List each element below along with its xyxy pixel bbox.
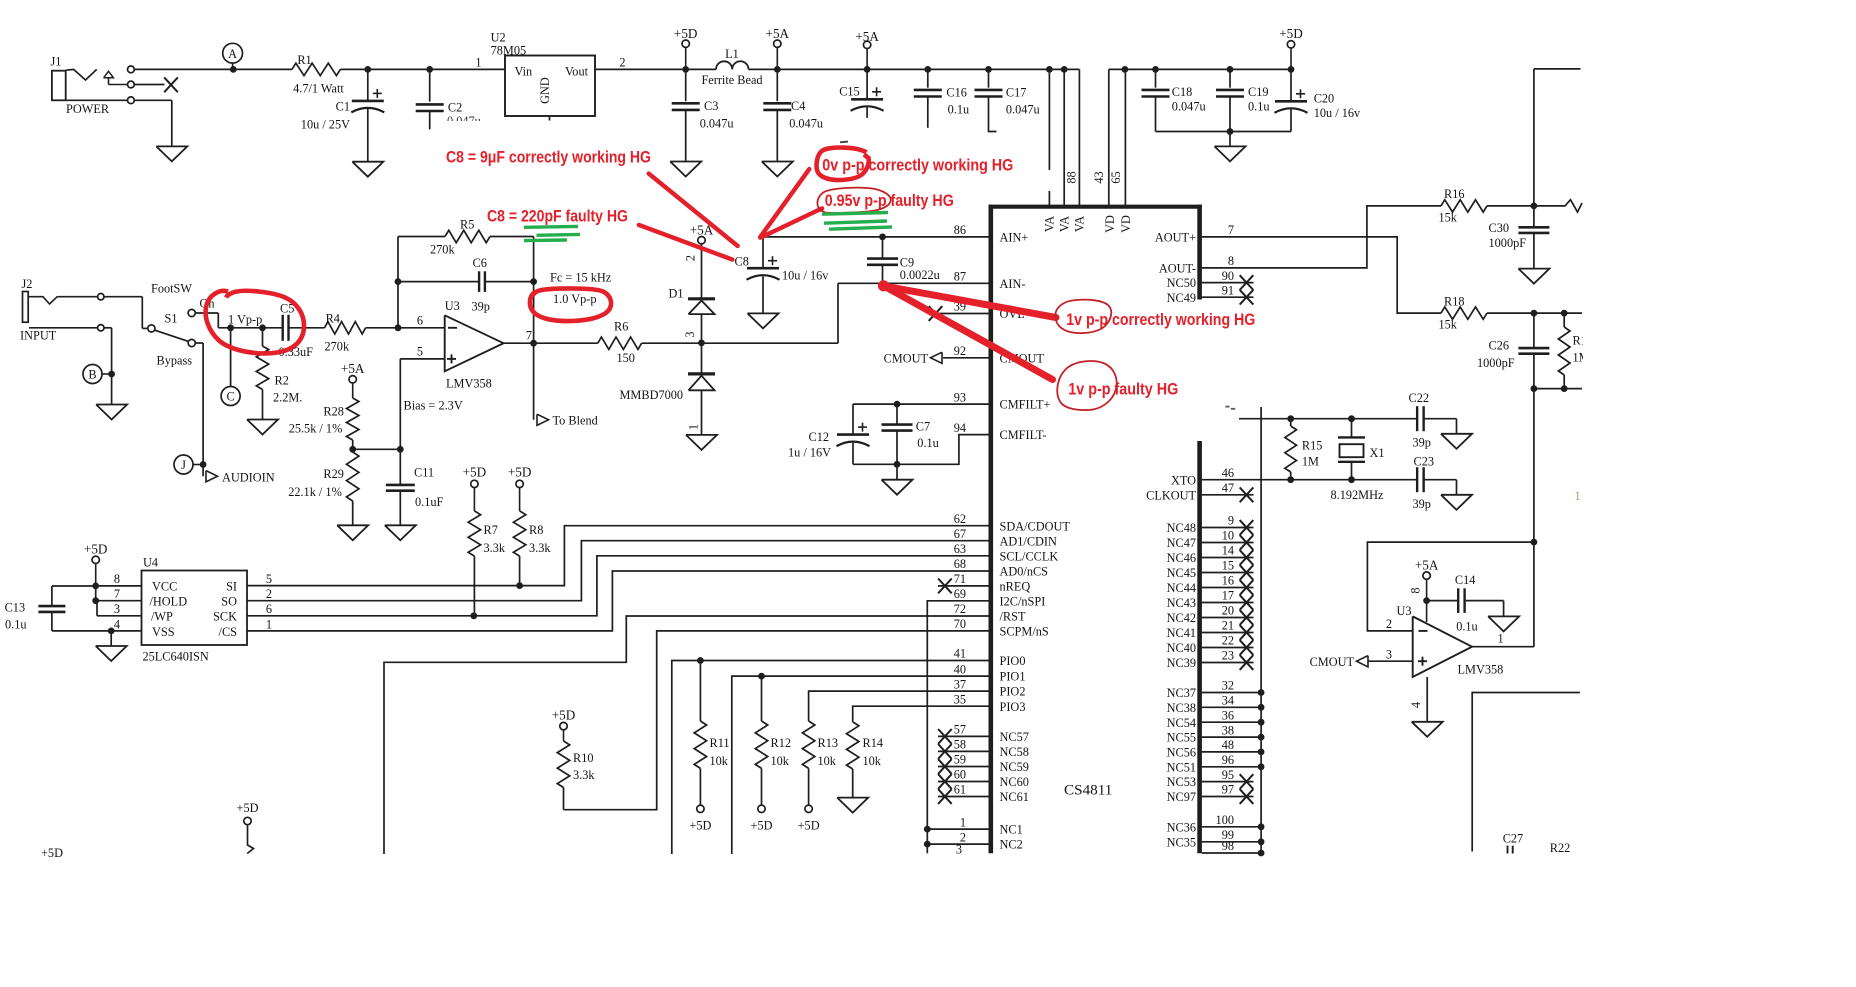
power +5D (R11)	[689, 805, 711, 832]
svg-text:NC60: NC60	[1000, 775, 1029, 789]
svg-text:CMOUT: CMOUT	[1310, 655, 1355, 669]
power +5A (C15 node)	[855, 29, 879, 69]
svg-text:0.047u: 0.047u	[1006, 103, 1040, 117]
svg-text:7: 7	[526, 329, 532, 343]
junction bias/C11	[397, 446, 404, 453]
svg-text:65: 65	[1109, 171, 1123, 183]
svg-text:72: 72	[954, 602, 966, 616]
capacitor C27 (cut)	[1503, 832, 1524, 854]
svg-text:D1: D1	[669, 286, 684, 300]
svg-text:NC35: NC35	[1167, 835, 1196, 849]
junction C2	[426, 66, 433, 73]
junction VCC	[92, 583, 99, 590]
svg-text:57: 57	[954, 723, 966, 737]
wire CMFILT- net	[853, 435, 989, 465]
svg-text:1 Vp-p: 1 Vp-p	[228, 313, 262, 327]
svg-text:71: 71	[954, 572, 966, 586]
svg-text:68: 68	[954, 557, 966, 571]
wire PIO2 net	[809, 691, 989, 721]
capacitor C30 1000pF	[1489, 206, 1550, 269]
svg-text:10k: 10k	[863, 754, 882, 768]
svg-text:NC37: NC37	[1167, 686, 1196, 700]
VA/VD supply wires into chip	[1049, 69, 1125, 205]
svg-text:R13: R13	[818, 736, 839, 750]
svg-text:C20: C20	[1314, 92, 1335, 106]
wire VSS ground stub	[110, 631, 112, 646]
svg-text:PIO3: PIO3	[1000, 700, 1026, 714]
svg-text:A: A	[228, 47, 237, 61]
svg-text:NC58: NC58	[1000, 745, 1029, 759]
test point B	[83, 365, 115, 384]
svg-text:Bypass: Bypass	[157, 354, 193, 368]
resistor R18 15k	[1439, 294, 1583, 331]
resistor R10 3.3k	[557, 741, 595, 810]
svg-text:25.5k / 1%: 25.5k / 1%	[289, 421, 343, 435]
hand oval around 0.95v p-p	[817, 188, 890, 213]
junction C6 right	[530, 278, 537, 285]
svg-text:+5A: +5A	[341, 361, 365, 376]
CS4811 right pin names and numbers	[1146, 223, 1234, 853]
svg-text:R4: R4	[326, 311, 340, 325]
svg-text:NC56: NC56	[1167, 746, 1196, 760]
svg-text:1: 1	[1575, 489, 1581, 503]
svg-text:S1: S1	[165, 312, 178, 326]
capacitor C7 0.1u	[882, 404, 939, 464]
svg-text:I2C/nSPI: I2C/nSPI	[1000, 594, 1046, 608]
svg-text:70: 70	[954, 617, 966, 631]
svg-text:41: 41	[954, 647, 966, 661]
svg-text:22: 22	[1222, 634, 1234, 648]
svg-text:20: 20	[1222, 604, 1234, 618]
svg-text:1000pF: 1000pF	[1489, 236, 1527, 250]
capacitor C2	[416, 69, 481, 129]
svg-text:AOUT+: AOUT+	[1155, 231, 1196, 245]
wire C18/C19/C20 ground rail	[1156, 131, 1292, 133]
svg-text:63: 63	[954, 542, 966, 556]
wire SI to SDA/CDOUT	[247, 526, 989, 586]
capacitor C5 0.33uF	[279, 302, 325, 359]
IC CS4811 body	[989, 205, 1202, 854]
svg-text:10k: 10k	[818, 754, 837, 768]
svg-text:SCPM/nS: SCPM/nS	[1000, 625, 1049, 639]
capacitor C17 0.047u	[975, 69, 1040, 131]
svg-text:39p: 39p	[1413, 497, 1431, 511]
power +5A (after L1)	[766, 26, 790, 69]
svg-text:CS4811: CS4811	[1064, 782, 1112, 799]
svg-text:1u / 16V: 1u / 16V	[788, 445, 831, 459]
svg-text:C8 = 220pF faulty HG: C8 = 220pF faulty HG	[487, 208, 628, 226]
junction R4/R5 node	[395, 324, 402, 331]
svg-text:39p: 39p	[472, 299, 490, 313]
svg-text:/RST: /RST	[1000, 610, 1026, 624]
svg-text:Vin: Vin	[515, 65, 533, 79]
svg-text:NC42: NC42	[1167, 611, 1196, 625]
svg-text:3: 3	[1386, 648, 1392, 662]
green highlight under 220pF	[524, 226, 580, 240]
wire SCPM/nS to R10	[564, 631, 989, 810]
wire to ground	[1229, 132, 1231, 147]
svg-text:48: 48	[1222, 738, 1234, 752]
svg-text:2: 2	[266, 587, 272, 601]
power +5A (U3 buffer)	[1409, 558, 1439, 622]
junction +5D/C3	[682, 66, 689, 73]
svg-text:0.047u: 0.047u	[700, 117, 734, 131]
wire AIN- net	[838, 283, 989, 343]
svg-text:L1: L1	[725, 47, 739, 61]
junction R15 top	[1287, 415, 1294, 422]
svg-text:R1: R1	[297, 53, 311, 67]
svg-text:25LC640ISN: 25LC640ISN	[143, 649, 209, 663]
capacitor C3 0.047u	[672, 69, 734, 161]
svg-text:14: 14	[1222, 544, 1234, 558]
svg-text:PIO2: PIO2	[1000, 685, 1026, 699]
svg-text:0.1uF: 0.1uF	[415, 495, 444, 509]
ground (J1)	[156, 146, 187, 161]
capacitor C4 0.047u	[763, 69, 823, 161]
svg-text:AD0/nCS: AD0/nCS	[1000, 565, 1049, 579]
AUDIOIN arrow	[206, 471, 275, 485]
resistor R5 270k	[430, 217, 490, 256]
capacitor C22 39p	[1409, 391, 1457, 450]
svg-text:C2: C2	[448, 100, 462, 114]
svg-text:C18: C18	[1172, 85, 1193, 99]
hand oval around 1v p-p (lower)	[1057, 361, 1116, 410]
svg-text:3.3k: 3.3k	[484, 541, 506, 555]
svg-text:R7: R7	[484, 523, 498, 537]
capacitor C8 10u/16v (polarized)	[735, 237, 830, 314]
svg-text:+5D: +5D	[674, 26, 698, 41]
svg-text:4: 4	[114, 617, 120, 631]
svg-text:15k: 15k	[1439, 318, 1458, 332]
red arrow AIN- to 1v p-p faulty	[884, 286, 1053, 380]
svg-text:8: 8	[1228, 254, 1234, 268]
To Blend arrow	[537, 414, 598, 428]
svg-text:2: 2	[1386, 617, 1392, 631]
op-amp U3 LMV358 (input stage)	[417, 299, 532, 391]
svg-text:NC43: NC43	[1167, 596, 1196, 610]
svg-text:FootSW: FootSW	[151, 282, 192, 296]
diode D1 lower (MMBD7000)	[620, 343, 716, 435]
svg-text:CLKOUT: CLKOUT	[1146, 488, 1196, 502]
svg-text:0.1u: 0.1u	[1248, 100, 1270, 114]
svg-text:1.0 Vp-p: 1.0 Vp-p	[553, 292, 597, 306]
ground (C30)	[1518, 269, 1549, 284]
svg-text:40: 40	[954, 662, 966, 676]
svg-text:To Blend: To Blend	[553, 414, 598, 428]
wire J2 ring to ground	[104, 328, 112, 405]
wire /CS to AD0/nCS	[247, 571, 989, 631]
ground (C14)	[1488, 616, 1519, 631]
svg-text:0.047u: 0.047u	[789, 117, 823, 131]
ground (C8)	[748, 313, 779, 328]
svg-text:3: 3	[683, 331, 697, 337]
resistor R29 22.1k/1%	[288, 452, 359, 525]
X no-connect nREQ pin 71	[938, 579, 989, 594]
junction VA2	[1061, 66, 1068, 73]
svg-text:7: 7	[114, 587, 120, 601]
svg-text:NC61: NC61	[1000, 790, 1029, 804]
svg-text:/CS: /CS	[219, 625, 238, 639]
svg-text:95: 95	[1222, 768, 1234, 782]
svg-text:NC55: NC55	[1167, 731, 1196, 745]
svg-text:5: 5	[417, 345, 423, 359]
resistor R11 10k	[694, 661, 729, 806]
connector J1 POWER barrel jack	[51, 55, 165, 117]
svg-text:NC53: NC53	[1167, 775, 1196, 789]
svg-text:NC39: NC39	[1167, 656, 1196, 670]
X no-connect right pins	[1202, 275, 1254, 804]
ground (C23)	[1441, 495, 1472, 510]
IC U4 25LC640ISN	[114, 556, 272, 664]
svg-text:NC97: NC97	[1167, 790, 1196, 804]
svg-text:C30: C30	[1489, 221, 1510, 235]
svg-text:8: 8	[1409, 587, 1423, 593]
svg-text:VSS: VSS	[152, 625, 175, 639]
svg-text:15: 15	[1222, 559, 1234, 573]
svg-text:SDA/CDOUT: SDA/CDOUT	[1000, 519, 1071, 533]
green highlight under 0.95v p-p	[822, 213, 892, 230]
svg-text:AIN+: AIN+	[1000, 231, 1029, 245]
ground (J2)	[96, 405, 127, 420]
svg-text:8: 8	[114, 572, 120, 586]
wire op-amp output	[504, 342, 598, 344]
svg-text:96: 96	[1222, 753, 1234, 767]
svg-text:VA: VA	[1073, 216, 1087, 232]
capacitor C1 10u/25V	[301, 69, 385, 161]
capacitor C13 0.1u	[5, 586, 142, 632]
junction output/feedback	[530, 340, 537, 347]
svg-text:36: 36	[1222, 708, 1234, 722]
svg-text:VD: VD	[1119, 215, 1133, 233]
svg-text:PIO0: PIO0	[1000, 654, 1026, 668]
svg-text:VCC: VCC	[152, 580, 177, 594]
wire AIN+ net	[763, 236, 989, 238]
svg-text:U2: U2	[491, 31, 506, 45]
crystal X1 8.192MHz	[1331, 419, 1385, 502]
ground (C1)	[352, 162, 383, 177]
svg-text:23: 23	[1222, 649, 1234, 663]
wire Bypass contact to AUDIOIN	[195, 343, 203, 476]
svg-text:10u / 16v: 10u / 16v	[782, 269, 829, 283]
wire PIO1 net	[732, 676, 989, 854]
svg-text:4: 4	[1409, 702, 1423, 708]
svg-text:LMV358: LMV358	[1458, 662, 1504, 676]
svg-text:SI: SI	[226, 580, 237, 594]
junction D1/R6/AIN-	[698, 340, 705, 347]
svg-text:R2: R2	[275, 374, 289, 388]
switch S1 FootSW	[98, 282, 215, 368]
power +5A (D1)	[684, 222, 714, 298]
svg-text:AIN-: AIN-	[1000, 277, 1026, 291]
svg-text:R8: R8	[529, 523, 543, 537]
resistor R19 (cut at edge)	[1558, 313, 1593, 389]
svg-text:nREQ: nREQ	[1000, 580, 1031, 594]
svg-text:6: 6	[417, 313, 423, 327]
svg-text:0.1u: 0.1u	[917, 436, 939, 450]
capacitor C11 0.1uF	[386, 449, 444, 525]
svg-text:39p: 39p	[1413, 435, 1431, 449]
pin labels VA VA VA VD VD (rotated)	[1043, 215, 1134, 233]
svg-text:SO: SO	[221, 595, 237, 609]
resistor R6 150	[598, 320, 838, 365]
CS4811 left pin names and numbers	[954, 223, 1071, 856]
svg-text:87: 87	[954, 270, 966, 284]
capacitor C6 39p	[472, 256, 490, 313]
junction VD2	[1122, 66, 1129, 73]
svg-text:Ferrite Bead: Ferrite Bead	[701, 73, 762, 87]
connector J2 INPUT jack	[20, 277, 97, 342]
capacitor C16 0.1u	[914, 69, 969, 127]
wire filter node down to buffer	[1533, 389, 1535, 647]
svg-text:R29: R29	[323, 467, 344, 481]
svg-text:CMFILT-: CMFILT-	[1000, 428, 1047, 442]
junction C16	[924, 66, 931, 73]
wire /HOLD tie	[96, 586, 142, 601]
inductor L1 Ferrite Bead	[701, 47, 762, 87]
svg-text:+5A: +5A	[766, 26, 790, 41]
svg-text:61: 61	[954, 783, 966, 797]
svg-text:+5D: +5D	[798, 818, 820, 832]
wire buffer output	[1472, 646, 1534, 648]
svg-text:CMFILT+: CMFILT+	[1000, 398, 1051, 412]
resistor R12 10k	[755, 676, 791, 805]
junction R15 bottom	[1287, 476, 1294, 483]
svg-text:6: 6	[266, 602, 272, 616]
svg-text:NC2: NC2	[1000, 838, 1023, 852]
wire top-right corner	[1534, 69, 1581, 206]
svg-text:SCK: SCK	[213, 610, 237, 624]
partial resistor at right edge (R16 net)	[1534, 200, 1582, 212]
resistor R16 15k	[1439, 187, 1534, 224]
wire op-amp pin5 bias	[400, 359, 463, 449]
svg-text:MMBD7000: MMBD7000	[620, 388, 684, 402]
svg-text:AUDIOIN: AUDIOIN	[222, 471, 275, 485]
svg-text:INPUT: INPUT	[20, 328, 57, 342]
svg-text:10u / 16v: 10u / 16v	[1314, 106, 1361, 120]
svg-text:2: 2	[684, 255, 698, 261]
svg-text:C7: C7	[916, 419, 930, 433]
junction +5A/C4	[774, 66, 781, 73]
svg-text:CMOUT: CMOUT	[884, 352, 929, 366]
svg-text:32: 32	[1222, 679, 1234, 693]
svg-text:59: 59	[954, 753, 966, 767]
svg-text:88: 88	[1065, 171, 1079, 183]
wire XTO pin 46 net	[1202, 479, 1417, 481]
svg-text:1v p-p correctly working HG: 1v p-p correctly working HG	[1066, 311, 1255, 329]
svg-text:90: 90	[1222, 269, 1234, 283]
svg-text:AOUT-: AOUT-	[1159, 262, 1196, 276]
resistor R8 3.3k	[508, 465, 552, 586]
svg-text:15k: 15k	[1439, 210, 1458, 224]
svg-text:NC45: NC45	[1167, 566, 1196, 580]
junction C17	[985, 66, 992, 73]
svg-text:R12: R12	[771, 736, 792, 750]
svg-text:J1: J1	[51, 55, 62, 69]
svg-text:270k: 270k	[430, 243, 455, 257]
svg-text:0.0022u: 0.0022u	[900, 268, 940, 282]
resistor R7 3.3k	[463, 465, 506, 616]
svg-text:1: 1	[475, 55, 481, 69]
svg-text:22.1k / 1%: 22.1k / 1%	[288, 485, 342, 499]
svg-text:5: 5	[266, 572, 272, 586]
wire J1 sleeve to ground	[134, 100, 172, 146]
svg-text:7: 7	[1228, 223, 1234, 237]
svg-text:0.1u: 0.1u	[1456, 619, 1478, 633]
svg-text:Bias = 2.3V: Bias = 2.3V	[404, 399, 463, 413]
junction C20	[1288, 66, 1295, 73]
power +5D (R10)	[552, 708, 576, 742]
svg-text:R16: R16	[1444, 187, 1465, 201]
svg-text:94: 94	[954, 421, 966, 435]
ground (C11)	[385, 525, 416, 540]
svg-text:270k: 270k	[325, 340, 350, 354]
svg-text:69: 69	[954, 587, 966, 601]
svg-text:R18: R18	[1444, 294, 1465, 308]
power +5D (bottom cut)	[237, 801, 259, 854]
svg-text:0.1u: 0.1u	[5, 618, 27, 632]
hand oval around 1v p-p (upper)	[1055, 300, 1111, 333]
svg-text:0.047u: 0.047u	[1172, 100, 1206, 114]
svg-text:C27: C27	[1503, 832, 1524, 846]
svg-text:+5D: +5D	[508, 465, 532, 480]
svg-text:C19: C19	[1248, 85, 1269, 99]
svg-text:+5D: +5D	[463, 465, 487, 480]
right NC bus vertical	[1260, 407, 1262, 853]
svg-text:NC59: NC59	[1000, 760, 1029, 774]
svg-text:LMV358: LMV358	[446, 377, 492, 391]
ground (digital caps)	[1215, 146, 1246, 161]
capacitor C20 10u/16v (polarized)	[1275, 69, 1362, 131]
svg-text:1: 1	[266, 617, 272, 631]
wire J1 tip to R1	[134, 68, 292, 70]
svg-text:GND: GND	[538, 77, 552, 104]
ground (U3 buffer)	[1412, 722, 1443, 737]
wire U2 Vout rail	[595, 68, 1079, 70]
svg-text:C3: C3	[704, 99, 718, 113]
svg-text:1M: 1M	[1302, 454, 1319, 468]
junction R18/C26	[1531, 310, 1538, 317]
svg-text:+5D: +5D	[552, 708, 576, 723]
right NC pin stubs to bus	[1202, 689, 1265, 856]
capacitor C15 (polarized)	[839, 69, 883, 118]
remnant dashes near crystal bus	[1225, 407, 1235, 409]
X no-connect OVL pin 39	[929, 306, 989, 321]
svg-text:8.192MHz: 8.192MHz	[1331, 488, 1384, 502]
power +5D (R12)	[751, 805, 773, 832]
svg-text:SCL/CCLK: SCL/CCLK	[1000, 549, 1059, 563]
hand circle around 0v p-p	[817, 148, 869, 181]
svg-text:R6: R6	[614, 320, 628, 334]
svg-text:3.3k: 3.3k	[529, 541, 551, 555]
svg-text:C26: C26	[1489, 338, 1510, 352]
svg-text:150: 150	[617, 351, 635, 365]
power +5A (R28)	[341, 361, 365, 398]
svg-text:86: 86	[954, 223, 966, 237]
diode D1 upper (MMBD7000)	[669, 286, 716, 343]
svg-text:38: 38	[1222, 723, 1234, 737]
test point A	[223, 43, 243, 69]
wire R1 to U2 pin1	[340, 68, 505, 70]
ground (C3)	[670, 162, 701, 177]
svg-text:2: 2	[619, 55, 625, 69]
svg-text:2.2M.: 2.2M.	[273, 391, 302, 405]
svg-text:43: 43	[1092, 171, 1106, 183]
svg-text:C22: C22	[1409, 391, 1430, 405]
junction C7 top	[894, 401, 901, 408]
svg-text:NC50: NC50	[1167, 276, 1196, 290]
svg-text:93: 93	[954, 390, 966, 404]
svg-text:9: 9	[1228, 514, 1234, 528]
